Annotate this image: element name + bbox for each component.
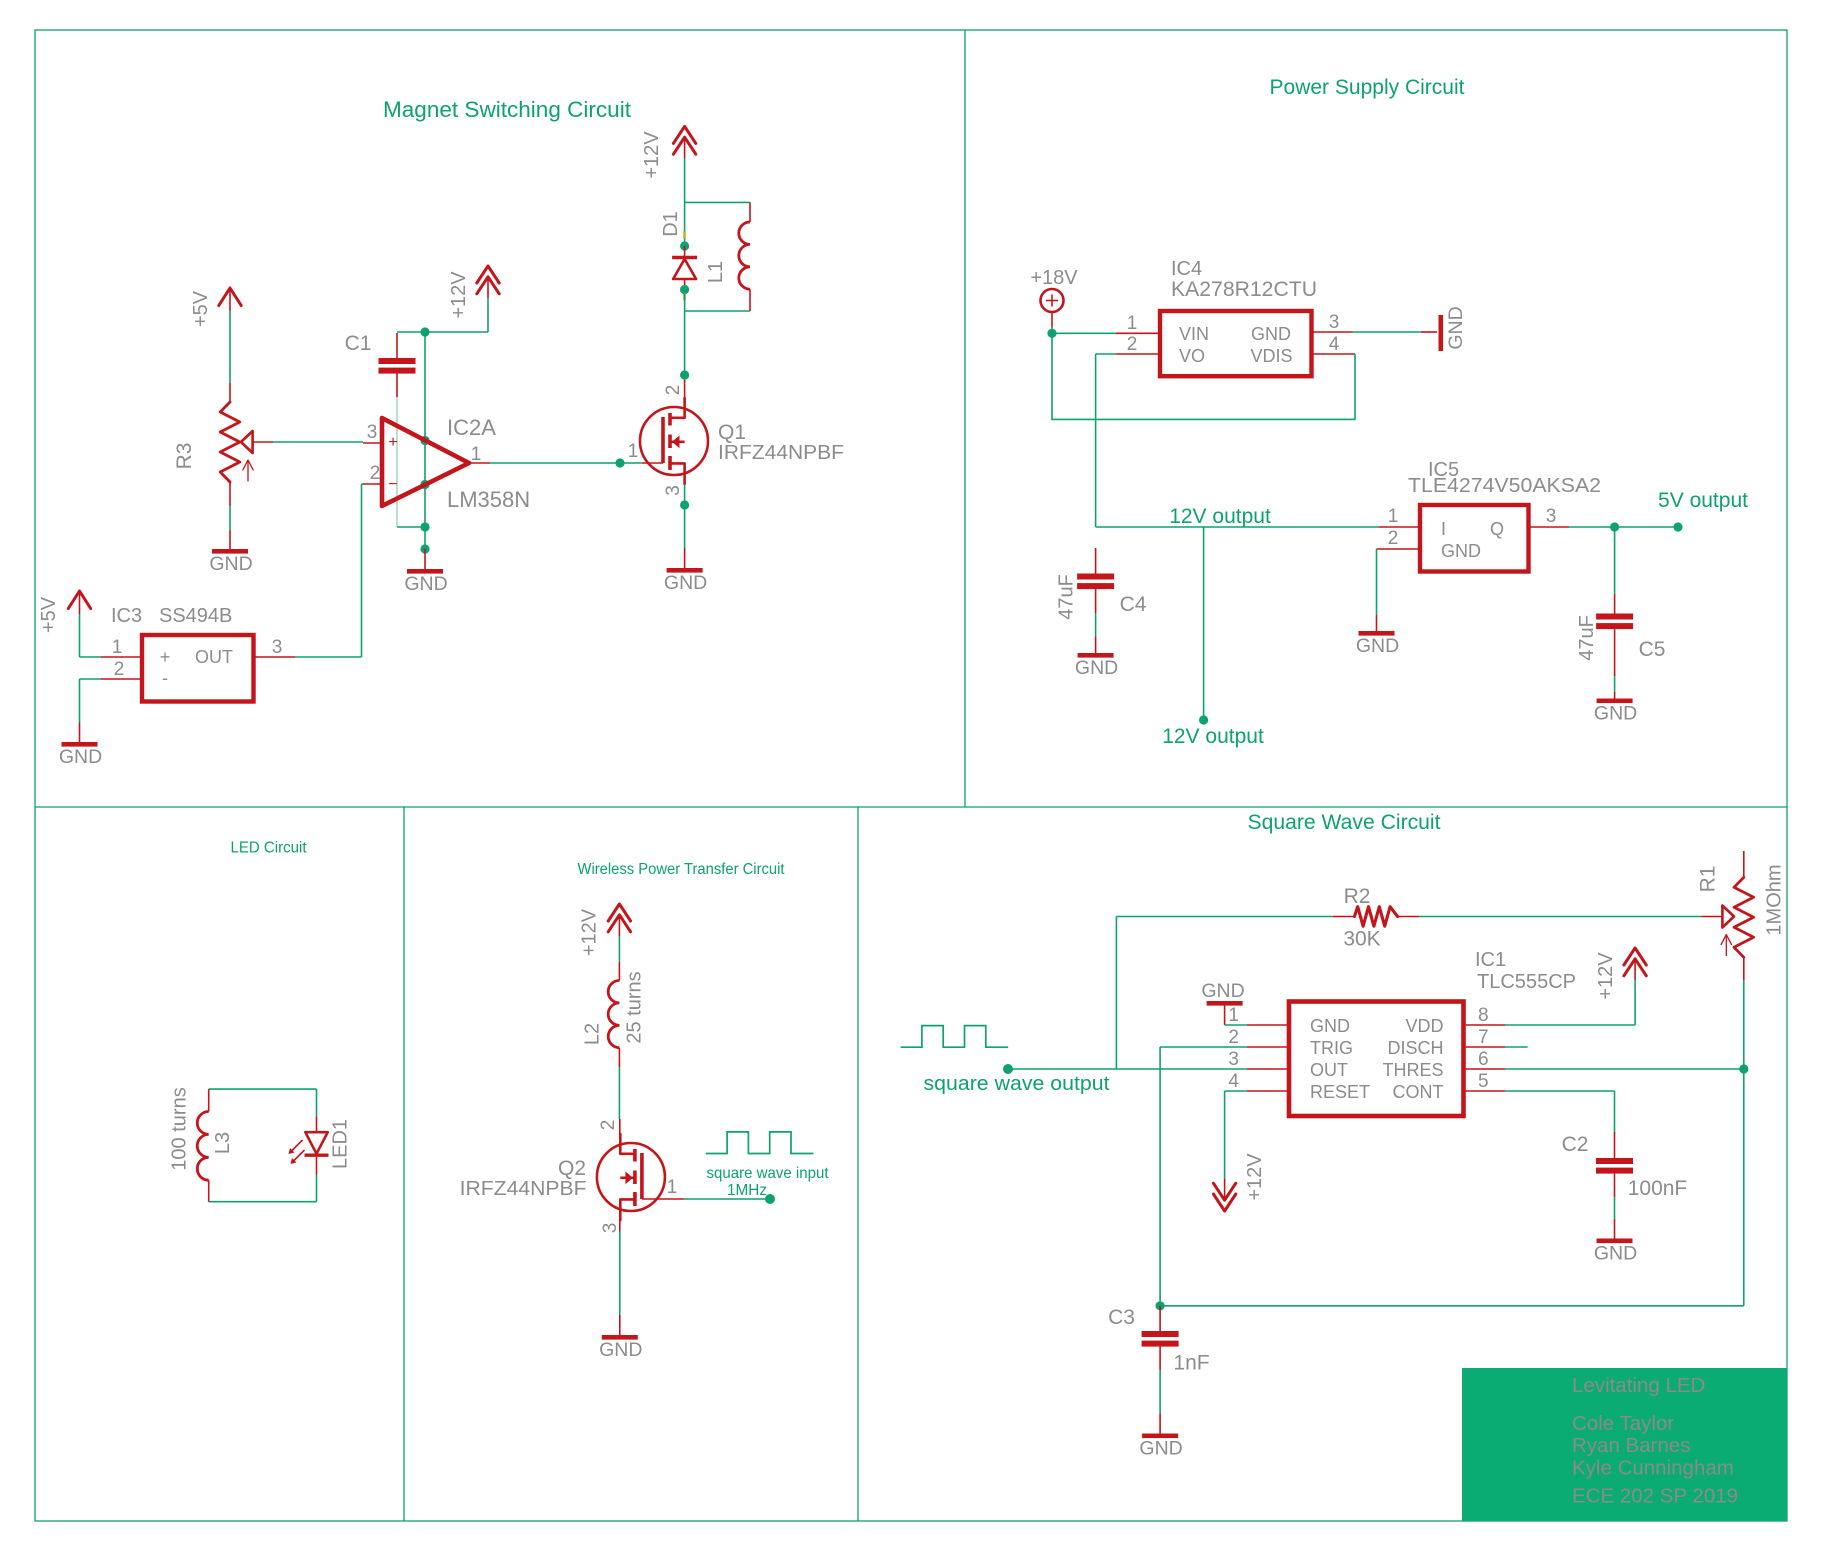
wire IC3 pin2 down xyxy=(79,679,81,723)
svg-text:C1: C1 xyxy=(345,332,372,355)
wire thres rail down xyxy=(1743,1069,1745,1306)
lead R3 top xyxy=(229,383,231,402)
ground Q2 xyxy=(602,1335,638,1340)
svg-text:30K: 30K xyxy=(1343,928,1380,951)
lead IC1 pin3 xyxy=(1247,1068,1289,1070)
svg-text:R3: R3 xyxy=(173,443,196,470)
wire cont xyxy=(1505,1090,1614,1092)
svg-text:THRES: THRES xyxy=(1382,1060,1443,1080)
power +5V at IC3 xyxy=(68,591,90,609)
svg-text:LED Circuit: LED Circuit xyxy=(231,840,308,857)
svg-text:-: - xyxy=(162,668,168,688)
svg-text:47uF: 47uF xyxy=(1056,574,1078,620)
hall sensor IC3 xyxy=(142,635,254,702)
section divider horizontal xyxy=(35,806,1787,808)
junction C1 join xyxy=(420,522,429,531)
svg-text:−: − xyxy=(388,476,397,493)
ground C5 xyxy=(1597,699,1633,704)
svg-text:+12V: +12V xyxy=(579,908,601,956)
lead GND IC3 xyxy=(79,723,81,743)
svg-text:47uF: 47uF xyxy=(1576,615,1598,661)
lead Q1 drain xyxy=(684,380,686,400)
resistor R2 xyxy=(1333,916,1355,918)
regulator IC4 xyxy=(1160,311,1312,376)
svg-text:GND: GND xyxy=(59,746,102,768)
svg-text:C2: C2 xyxy=(1562,1133,1589,1156)
svg-text:1MOhm: 1MOhm xyxy=(1763,864,1785,935)
svg-text:2: 2 xyxy=(370,463,381,484)
svg-text:+12V: +12V xyxy=(1244,1153,1266,1201)
lead GND Q2 xyxy=(619,1315,621,1335)
svg-text:Levitating LED: Levitating LED xyxy=(1572,1374,1705,1397)
svg-text:OUT: OUT xyxy=(1310,1060,1348,1080)
svg-text:+12V: +12V xyxy=(448,271,470,319)
wire LED loop top xyxy=(209,1088,317,1090)
wire IC2A out xyxy=(490,462,642,464)
ground IC2A xyxy=(407,569,443,574)
wire L1 bottom branch xyxy=(685,310,750,312)
svg-text:IRFZ44NPBF: IRFZ44NPBF xyxy=(460,1177,587,1200)
lead IC4 pin2 xyxy=(1116,353,1160,355)
wire +18V to IC4 xyxy=(1052,332,1116,334)
wire D1 to Q1 xyxy=(684,290,686,383)
svg-text:TLE4274V50AKSA2: TLE4274V50AKSA2 xyxy=(1408,475,1601,497)
wire Q1 source to GND xyxy=(684,484,686,548)
wire 12V stub down xyxy=(1203,527,1205,720)
section divider top vertical xyxy=(964,30,966,807)
svg-text:2: 2 xyxy=(114,659,125,680)
svg-text:Wireless Power Transfer Circui: Wireless Power Transfer Circuit xyxy=(578,861,786,878)
svg-text:1: 1 xyxy=(628,441,639,462)
lead IC1 pin8 xyxy=(1464,1024,1506,1026)
lead IC3 pin3 xyxy=(254,656,296,658)
lead IC5 pin2 xyxy=(1377,548,1421,550)
wire C1 top to +12V xyxy=(397,331,488,333)
wire R2 left xyxy=(1116,916,1332,918)
svg-text:2: 2 xyxy=(663,385,684,396)
svg-text:IC4: IC4 xyxy=(1171,258,1202,280)
svg-text:1: 1 xyxy=(1388,506,1399,527)
lead Q2 drain xyxy=(619,1119,621,1135)
svg-text:2: 2 xyxy=(598,1120,619,1131)
svg-text:3: 3 xyxy=(1546,506,1557,527)
lead GND IC5 xyxy=(1376,615,1378,631)
wire thres rail left xyxy=(1160,1305,1744,1307)
junction Q1 drain xyxy=(680,370,689,379)
svg-text:L1: L1 xyxy=(705,261,727,283)
lead IC1 pin2 xyxy=(1247,1046,1289,1048)
ground IC5 xyxy=(1359,631,1395,636)
svg-text:DISCH: DISCH xyxy=(1387,1038,1443,1058)
svg-text:1: 1 xyxy=(471,444,482,465)
svg-text:1nF: 1nF xyxy=(1173,1352,1209,1375)
wire gnd to pin1 xyxy=(1224,1006,1226,1025)
ground C2 xyxy=(1597,1239,1633,1244)
capacitor C4 xyxy=(1095,548,1097,574)
svg-text:4: 4 xyxy=(1329,334,1340,355)
svg-text:GND: GND xyxy=(1594,703,1637,725)
svg-text:GND: GND xyxy=(404,573,447,595)
wire R2 to R1 wiper xyxy=(1419,916,1701,918)
svg-text:+: + xyxy=(388,434,397,451)
svg-text:+12V: +12V xyxy=(1595,952,1617,1000)
potentiometer R3 xyxy=(220,402,240,482)
svg-text:GND: GND xyxy=(1594,1243,1637,1265)
lead IC5 pin1 xyxy=(1379,526,1420,528)
svg-text:IC3: IC3 xyxy=(111,605,142,627)
svg-text:D1: D1 xyxy=(660,211,682,237)
junction D1 top xyxy=(680,241,689,250)
svg-text:GND: GND xyxy=(664,572,707,594)
wire trig xyxy=(1160,1046,1247,1048)
svg-text:GND: GND xyxy=(1075,657,1118,679)
wire +12V to D1 xyxy=(673,126,695,143)
lead GND Q1 xyxy=(684,548,686,568)
svg-text:GND: GND xyxy=(599,1339,642,1361)
wire 5V output xyxy=(1569,526,1678,528)
junction D1 bottom xyxy=(680,285,689,294)
svg-text:1: 1 xyxy=(667,1177,678,1198)
svg-text:SS494B: SS494B xyxy=(159,605,232,627)
svg-text:Square Wave Circuit: Square Wave Circuit xyxy=(1248,811,1441,834)
svg-text:3: 3 xyxy=(1228,1049,1239,1070)
junction R1 thres xyxy=(1739,1064,1748,1073)
svg-text:12V output: 12V output xyxy=(1169,505,1271,528)
junction C5 top xyxy=(1610,522,1619,531)
wire LED right bottom xyxy=(316,1175,318,1202)
svg-text:LED1: LED1 xyxy=(330,1119,352,1169)
inductor L2 xyxy=(618,962,620,981)
svg-text:+5V: +5V xyxy=(38,596,60,633)
wire out xyxy=(1008,1068,1247,1070)
wire disch stub xyxy=(1505,1046,1527,1048)
transistor Q1 xyxy=(640,407,708,475)
lead IC4 pin4 xyxy=(1312,353,1356,355)
wire vdd xyxy=(1505,1024,1635,1026)
title block xyxy=(1462,1368,1787,1521)
svg-text:VDD: VDD xyxy=(1405,1016,1443,1036)
svg-text:3: 3 xyxy=(367,422,378,443)
regulator IC5 xyxy=(1420,505,1529,572)
capacitor C5 xyxy=(1614,527,1616,594)
erc tick bottom xyxy=(683,294,686,301)
svg-text:TLC555CP: TLC555CP xyxy=(1477,971,1576,993)
svg-text:1: 1 xyxy=(112,637,123,658)
op-amp IC2A xyxy=(382,418,469,506)
svg-text:2: 2 xyxy=(1127,334,1138,355)
svg-text:25 turns: 25 turns xyxy=(624,971,646,1043)
junction IC2A out xyxy=(615,458,624,467)
wire Q2 source down xyxy=(619,1231,621,1315)
svg-text:+: + xyxy=(160,647,171,667)
capacitor C2 xyxy=(1614,1132,1616,1158)
lead R1 wiper xyxy=(1701,916,1722,918)
wire R1 bottom xyxy=(1743,980,1745,1069)
wire +5V to R3 xyxy=(229,311,231,383)
transistor Q2 xyxy=(597,1143,665,1211)
wire L1 top branch xyxy=(685,201,750,203)
power +5V at R3 xyxy=(219,288,241,306)
ground C4 xyxy=(1078,653,1114,658)
svg-text:Ryan Barnes: Ryan Barnes xyxy=(1572,1434,1691,1457)
power +12V at IC2A xyxy=(477,266,499,283)
svg-text:OUT: OUT xyxy=(195,647,233,667)
wire to opamp gnd xyxy=(424,527,426,549)
svg-text:VDIS: VDIS xyxy=(1250,346,1292,366)
lead IC5 pin3 xyxy=(1529,526,1570,528)
svg-text:square wave input: square wave input xyxy=(707,1165,830,1182)
power +12V at L2 xyxy=(608,904,630,921)
wire +18V node xyxy=(1051,327,1053,333)
svg-text:12V output: 12V output xyxy=(1162,725,1264,748)
lead IC1 pin5 xyxy=(1464,1090,1506,1092)
svg-text:+18V: +18V xyxy=(1030,267,1078,289)
svg-text:LM358N: LM358N xyxy=(447,487,530,512)
svg-text:C5: C5 xyxy=(1639,638,1666,661)
lead GND R3 xyxy=(229,530,231,549)
svg-text:L2: L2 xyxy=(582,1023,604,1045)
svg-text:100nF: 100nF xyxy=(1628,1177,1688,1200)
svg-text:RESET: RESET xyxy=(1310,1082,1370,1102)
svg-text:CONT: CONT xyxy=(1393,1082,1444,1102)
lead R3 bottom xyxy=(229,482,231,506)
ground Q1 xyxy=(667,568,703,573)
wire thres xyxy=(1505,1068,1743,1070)
svg-text:2: 2 xyxy=(1228,1027,1239,1048)
svg-text:GND: GND xyxy=(1310,1016,1350,1036)
svg-text:7: 7 xyxy=(1478,1027,1489,1048)
potentiometer R1 xyxy=(1743,851,1745,877)
wire LED loop bottom xyxy=(209,1201,317,1203)
svg-text:R2: R2 xyxy=(1344,885,1371,908)
svg-text:C4: C4 xyxy=(1120,593,1147,616)
svg-text:GND: GND xyxy=(1441,541,1481,561)
svg-text:3: 3 xyxy=(272,637,283,658)
svg-text:2: 2 xyxy=(1388,528,1399,549)
svg-text:1: 1 xyxy=(1228,1005,1239,1026)
square wave input glyph xyxy=(706,1132,814,1154)
wire 12V rail xyxy=(1096,526,1379,528)
svg-text:3: 3 xyxy=(600,1223,621,1234)
svg-text:1MHz: 1MHz xyxy=(727,1182,767,1199)
junction Q1 source xyxy=(680,500,689,509)
lead IC3 pin1 xyxy=(80,656,102,658)
capacitor C1 xyxy=(396,333,398,358)
svg-text:GND: GND xyxy=(1201,980,1244,1002)
power +12V at vdd xyxy=(1624,948,1646,965)
lead IC1 pin6 xyxy=(1464,1068,1506,1070)
wire +12V to L2 xyxy=(618,936,620,962)
lead GND IC2A xyxy=(424,549,426,569)
lead Q2 source xyxy=(619,1219,621,1232)
power +12V down at reset xyxy=(1213,1194,1235,1211)
junction C3 xyxy=(1156,1301,1165,1310)
svg-text:ECE 202 SP 2019: ECE 202 SP 2019 xyxy=(1572,1485,1738,1508)
svg-text:GND: GND xyxy=(1356,635,1399,657)
svg-text:KA278R12CTU: KA278R12CTU xyxy=(1171,278,1317,301)
wire R3 to GND xyxy=(229,506,231,530)
wire R3 wiper to IC2A pin3 xyxy=(273,441,363,443)
ground IC4 rotated xyxy=(1439,315,1444,351)
svg-text:5V output: 5V output xyxy=(1658,489,1748,512)
wire IC3 out to IC2A pin2 xyxy=(361,484,363,657)
led LED1 xyxy=(316,1116,318,1132)
svg-text:6: 6 xyxy=(1478,1049,1489,1070)
ground R3 xyxy=(212,549,248,554)
svg-text:100 turns: 100 turns xyxy=(169,1087,191,1170)
lead IC1 pin4 xyxy=(1247,1090,1289,1092)
wire +5V to IC3 xyxy=(79,614,81,657)
svg-text:IRFZ44NPBF: IRFZ44NPBF xyxy=(718,441,844,464)
junction C1 top xyxy=(420,327,429,336)
supply +18V xyxy=(1041,289,1064,312)
lead IC3 pin2 xyxy=(80,678,102,680)
wire LED right top xyxy=(316,1089,318,1116)
lead Q2 gate wire xyxy=(642,1198,684,1200)
lead IC1 pin7 xyxy=(1464,1046,1506,1048)
wire IC5 gnd xyxy=(1376,549,1378,615)
svg-text:+12V: +12V xyxy=(641,131,663,179)
svg-text:8: 8 xyxy=(1478,1005,1489,1026)
svg-text:Magnet Switching Circuit: Magnet Switching Circuit xyxy=(383,97,631,122)
wire C1 bottom join xyxy=(397,526,425,528)
diode D1 xyxy=(684,246,686,257)
svg-text:GND: GND xyxy=(1251,324,1291,344)
lead IC4 pin3 xyxy=(1312,331,1353,333)
svg-text:VO: VO xyxy=(1179,346,1205,366)
timer IC1 xyxy=(1289,1002,1464,1117)
svg-text:VIN: VIN xyxy=(1179,324,1209,344)
square wave output glyph xyxy=(901,1026,1009,1048)
lead GND IC4 pin3 xyxy=(1421,331,1437,333)
section divider bottom vertical 1 xyxy=(403,807,405,1521)
svg-text:IC1: IC1 xyxy=(1475,949,1506,971)
wire L2 to Q2 xyxy=(618,1067,620,1119)
svg-text:1: 1 xyxy=(1127,313,1138,334)
wire V+ rail IC2A xyxy=(424,332,426,527)
lead Q1 gate xyxy=(642,462,663,464)
svg-text:+5V: +5V xyxy=(190,290,212,327)
svg-text:3: 3 xyxy=(663,485,684,496)
svg-text:C3: C3 xyxy=(1108,1306,1135,1329)
junction opamp gnd xyxy=(420,544,429,553)
svg-text:GND: GND xyxy=(209,553,252,575)
wire reset xyxy=(1225,1090,1247,1092)
svg-text:Power Supply Circuit: Power Supply Circuit xyxy=(1270,76,1465,99)
svg-text:3: 3 xyxy=(1329,312,1340,333)
svg-text:TRIG: TRIG xyxy=(1310,1038,1353,1058)
inductor L3 xyxy=(208,1089,210,1111)
svg-text:GND: GND xyxy=(1139,1438,1182,1460)
wire C1 overlap xyxy=(396,397,398,527)
ground IC3 xyxy=(62,742,98,747)
svg-text:I: I xyxy=(1441,519,1446,539)
svg-text:L3: L3 xyxy=(212,1132,234,1154)
svg-text:5: 5 xyxy=(1478,1071,1489,1092)
svg-text:GND: GND xyxy=(1445,306,1467,349)
wire VDIS loop xyxy=(1052,333,1355,419)
inductor L1 xyxy=(749,202,751,222)
ground C3 xyxy=(1142,1434,1178,1439)
svg-text:Cole Taylor: Cole Taylor xyxy=(1572,1412,1674,1435)
svg-text:R1: R1 xyxy=(1697,866,1720,893)
section divider bottom vertical 2 xyxy=(857,807,859,1521)
ground IC1 pin1 xyxy=(1207,1001,1243,1006)
capacitor C3 xyxy=(1159,1306,1161,1331)
svg-text:4: 4 xyxy=(1228,1071,1239,1092)
svg-text:IC2A: IC2A xyxy=(447,415,496,440)
wire VO down xyxy=(1095,354,1097,527)
svg-text:Kyle Cunningham: Kyle Cunningham xyxy=(1572,1457,1734,1480)
svg-text:Q: Q xyxy=(1490,519,1504,539)
erc tick top xyxy=(683,232,686,239)
junction V- pin xyxy=(420,480,429,489)
svg-text:square wave output: square wave output xyxy=(924,1073,1110,1095)
junction V+ pin xyxy=(420,436,429,445)
